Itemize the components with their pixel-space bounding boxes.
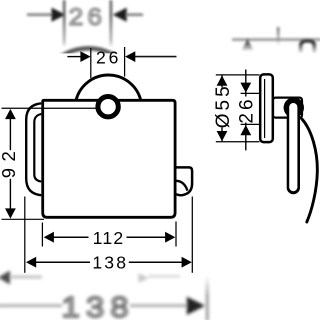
- wire side 26 dim line: [245, 70, 247, 151]
- blurry arrow under side tick: [242, 39, 253, 50]
- node 112 extension line left: [41, 223, 43, 247]
- arrow 138 left: [26, 257, 36, 268]
- dimension 26 side: [237, 70, 258, 151]
- svg-text:Ø55: Ø55: [213, 83, 234, 128]
- wire blurry dim line stub: [277, 27, 280, 45]
- node 138 extension line right: [191, 197, 193, 273]
- wire Ø55 dim line: [221, 75, 223, 141]
- svg-text:26: 26: [69, 4, 106, 31]
- wire blurry dim tail left: [27, 13, 53, 16]
- wire blurry side tick line: [232, 38, 320, 41]
- blurry background top band: [27, 0, 320, 80]
- svg-text:138: 138: [92, 252, 128, 272]
- node 92 top reference line: [2, 107, 97, 109]
- roll rod left inner edge: [34, 114, 43, 182]
- node rosette bottom tick: [216, 141, 260, 143]
- pivot disc: [284, 97, 304, 117]
- wire 138 line left: [36, 261, 90, 263]
- svg-text:138: 138: [62, 291, 135, 320]
- node 92 bottom reference line: [2, 218, 45, 220]
- node 26 extension line left: [90, 48, 92, 78]
- blurry arrow left of big 26: [52, 8, 66, 22]
- blurry extension line bottom right: [206, 276, 209, 320]
- wire blurry 138 line right: [130, 304, 189, 307]
- arrow 112 left: [44, 232, 54, 243]
- blurry arrow right of big 26: [113, 8, 127, 22]
- svg-text:92: 92: [0, 145, 19, 179]
- node rosette inner face line: [264, 79, 266, 138]
- arrow 26 right: [125, 51, 135, 62]
- svg-text:26: 26: [96, 47, 121, 67]
- blurry extension line left: [63, 0, 66, 46]
- label Ø55 backing: [214, 88, 231, 128]
- arrow Ø55 bottom: [217, 131, 228, 141]
- arrow side 26 bottom: [240, 125, 251, 135]
- arrow 26 left: [80, 51, 90, 62]
- wire 92 dim line upper: [9, 118, 11, 150]
- dimension 92: [0, 109, 19, 219]
- rosette dome arc behind plate: [76, 75, 141, 100]
- roll pin rosette ring: [98, 97, 118, 117]
- dimension 138: [25, 197, 193, 273]
- label side 26 backing: [238, 97, 254, 123]
- wire 138 line right: [129, 261, 183, 263]
- wire blurry dim tail right: [126, 13, 143, 16]
- arrow 92 bottom: [5, 208, 16, 218]
- wire 92 dim line lower: [9, 179, 11, 210]
- arm inner slot: [289, 103, 297, 191]
- roll rod left outer edge: [26, 103, 43, 195]
- hook outer at right: [176, 167, 192, 195]
- hook inner arc: [176, 181, 187, 191]
- dimension 26 top: [67, 47, 176, 78]
- dimension 112: [42, 222, 176, 249]
- node 138 extension line left: [24, 197, 26, 273]
- blurry extension line right: [110, 0, 113, 46]
- node side 26 top tick: [241, 92, 261, 94]
- arrow 138 right: [182, 257, 192, 268]
- wire 112 line left: [53, 236, 89, 238]
- arrow side 26 top: [240, 83, 251, 93]
- node 26 extension line right: [124, 47, 126, 77]
- wire blurry faint tail: [11, 276, 42, 279]
- blurry rosette corner: [301, 41, 315, 53]
- node rosette top tick: [216, 74, 260, 76]
- arrow 112 right: [165, 232, 175, 243]
- wire blurry 138 line left: [0, 304, 62, 307]
- blurry background bottom band: [0, 271, 207, 320]
- node side 26 bottom tick: [241, 123, 261, 125]
- blurry dome arc: [42, 48, 135, 80]
- wall rosette side profile: [260, 74, 273, 142]
- wire 112 line right: [127, 236, 167, 238]
- cover swing curve: [302, 119, 318, 223]
- node 112 extension line right: [175, 222, 177, 247]
- cover plate outline: [41, 99, 176, 219]
- blurry faint arrow mid: [148, 275, 180, 277]
- arm outer capsule: [287, 101, 300, 195]
- svg-text:26: 26: [237, 96, 258, 123]
- arrow 92 top: [5, 109, 16, 119]
- mount block: [273, 98, 302, 118]
- blurry 138 arrow right: [187, 297, 205, 315]
- dimension Ø55: [213, 75, 234, 141]
- wire 26 tail right: [135, 56, 177, 58]
- svg-text:112: 112: [93, 228, 125, 248]
- wire 26 tail left: [67, 56, 82, 58]
- blurry clipped arrow bottom-left: [0, 271, 10, 285]
- arrow Ø55 top: [217, 76, 228, 86]
